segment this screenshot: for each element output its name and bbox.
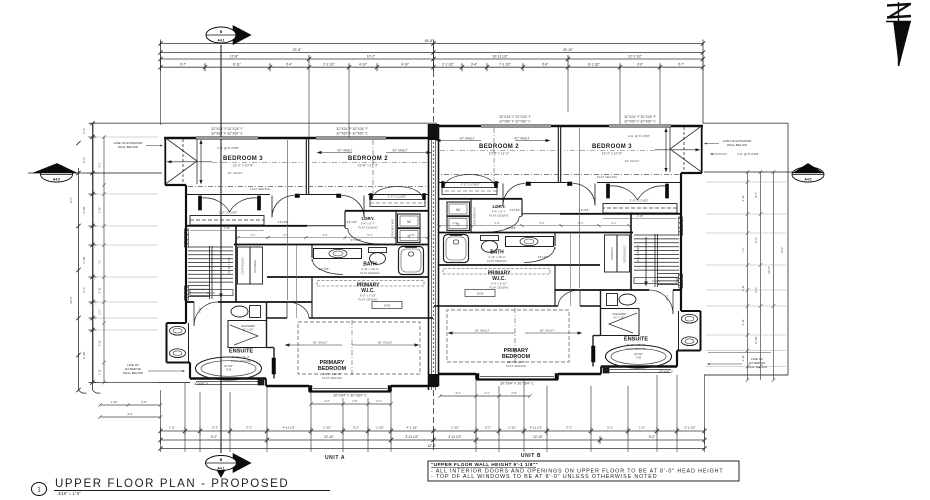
handrail boxes (617, 235, 630, 272)
closet bedroom3: double door arcs (638, 186, 666, 200)
party wall (429, 124, 439, 390)
section marker A right (792, 164, 824, 183)
svg-text:2'-6": 2'-6" (511, 391, 516, 395)
svg-text:2'-3": 2'-3" (376, 399, 381, 403)
interior dim line hall (287, 140, 289, 300)
door ensuite (672, 290, 674, 314)
stair direction arrow (220, 249, 222, 295)
svg-text:2'6"x6'8": 2'6"x6'8" (319, 267, 330, 271)
svg-text:13'-2" x 10'-9": 13'-2" x 10'-9" (602, 152, 624, 156)
party wall black junction bottom (429, 374, 439, 387)
stair treads lower (188, 285, 210, 287)
wall: shower east (600, 290, 602, 336)
wall: bath north (439, 232, 634, 234)
svg-text:8'-11": 8'-11" (233, 63, 241, 67)
svg-text:WALL BELOW: WALL BELOW (123, 371, 143, 375)
hall dim row 2 (439, 225, 629, 227)
wall: WIC south / bedroom north (267, 317, 287, 319)
svg-text:3'-11": 3'-11" (741, 319, 745, 325)
svg-text:BEDROOM 2: BEDROOM 2 (479, 144, 519, 150)
section line A-A left (28, 172, 162, 174)
svg-text:22'-10": 22'-10" (533, 435, 543, 439)
svg-text:6'-1": 6'-1" (754, 287, 758, 293)
door bath (554, 247, 556, 249)
svg-text:1'-10": 1'-10" (224, 226, 231, 230)
north wall window breaks (609, 125, 671, 127)
dimension rows bottom (158, 375, 706, 461)
wall: WIC west (554, 265, 556, 306)
svg-text:LDRY.: LDRY. (361, 216, 374, 221)
ensuite toilet (231, 306, 248, 317)
svg-text:5'-4": 5'-4" (367, 233, 372, 237)
door bath (311, 259, 313, 261)
svg-text:FLAT CEILING: FLAT CEILING (231, 359, 252, 363)
svg-text:2'-0" CLOSET: 2'-0" CLOSET (461, 183, 480, 187)
shower stall (228, 321, 267, 348)
svg-text:12'-8": 12'-8" (230, 54, 239, 58)
svg-text:8'-7": 8'-7" (754, 192, 758, 198)
wall: bath south / WIC north (439, 264, 601, 266)
svg-text:42" VAULT: 42" VAULT (625, 159, 640, 163)
wall: west exterior (680, 173, 682, 311)
svg-text:42" VAULT: 42" VAULT (337, 149, 352, 153)
door jamb at bedroom window (258, 378, 264, 385)
svg-text:2'-1": 2'-1" (484, 391, 489, 395)
window sill lines under tub (196, 381, 261, 383)
svg-text:8'-2": 8'-2" (754, 237, 758, 243)
svg-text:1'-10": 1'-10" (637, 214, 644, 218)
north wall window breaks (196, 137, 258, 139)
svg-text:3'-11 1/2": 3'-11 1/2" (405, 435, 418, 439)
primary bedroom center dash (514, 308, 516, 364)
bedroom2 center dash (493, 128, 495, 181)
svg-text:8'-7": 8'-7" (69, 197, 73, 203)
svg-text:LINEN: LINEN (652, 279, 660, 283)
svg-text:9'-10": 9'-10" (754, 336, 758, 343)
svg-text:1'-10": 1'-10" (451, 426, 459, 430)
svg-text:3'-7": 3'-7" (180, 63, 186, 67)
svg-text:7'-1 1/2": 7'-1 1/2" (499, 63, 511, 67)
svg-text:2'-0" CLOSET: 2'-0" CLOSET (219, 211, 238, 215)
door primary bedroom (579, 290, 581, 306)
svg-text:UPPER FLOOR PLAN - PROPOSED: UPPER FLOOR PLAN - PROPOSED (55, 478, 289, 490)
svg-text:1'-11": 1'-11" (98, 369, 102, 375)
svg-text:2'-5": 2'-5" (352, 399, 357, 403)
door bedroom3 (271, 196, 273, 218)
wall: bath west (554, 233, 556, 247)
WIC shelves dashed (317, 281, 424, 287)
WIC shoe shelf (465, 290, 495, 297)
wall: south exterior ensuite (601, 365, 677, 367)
svg-text:5'-1": 5'-1" (283, 233, 288, 237)
svg-text:4'-4": 4'-4" (127, 412, 133, 416)
svg-text:7'-10": 7'-10" (198, 307, 202, 314)
svg-text:FLAT CEILING: FLAT CEILING (597, 175, 618, 179)
closet bedroom3: shelf (603, 204, 677, 214)
svg-text:20"X60" F: 20"X60" F (659, 370, 673, 374)
title drawing number circle (32, 483, 47, 496)
svg-text:2'-1 1/2": 2'-1 1/2" (685, 426, 696, 430)
ensuite vanity + sinks (678, 311, 680, 351)
handrail boxes (238, 247, 251, 284)
svg-text:SHOE: SHOE (477, 293, 484, 296)
svg-text:4'-1 1/2": 4'-1 1/2" (407, 426, 418, 430)
shower stall (601, 309, 640, 336)
bath vanity (506, 237, 554, 247)
svg-text:36"x60": 36"x60" (634, 352, 643, 356)
svg-text:4'-11 1/2": 4'-11 1/2" (530, 426, 542, 430)
wall hatch block west upper (679, 217, 683, 235)
svg-text:1'-10": 1'-10" (323, 426, 331, 430)
svg-text:2'6"x6'8": 2'6"x6'8" (510, 208, 521, 212)
door bedroom3 (594, 184, 596, 206)
svg-text:CONTINUOUS: CONTINUOUS (623, 245, 627, 263)
svg-text:1'-6": 1'-6" (169, 426, 175, 430)
svg-text:1'-6": 1'-6" (639, 426, 645, 430)
wall: closet south (186, 225, 307, 227)
wall: shower east (266, 302, 268, 348)
svg-text:36"x60": 36"x60" (224, 364, 233, 368)
party wall centerline dashed (433, 44, 435, 124)
bath toilet (369, 248, 387, 253)
dimension droppers top (160, 71, 162, 125)
primary bedroom vault arrows (288, 344, 342, 346)
door primary bedroom (286, 302, 288, 318)
svg-text:30"X64" F 30"X64" C: 30"X64" F 30"X64" C (500, 382, 534, 386)
bedroom2 center dash (372, 140, 374, 193)
wall: bath north (234, 244, 429, 246)
wall: hall south (673, 289, 681, 291)
svg-text:2'6"x6'8": 2'6"x6'8" (278, 220, 289, 224)
wall: south window bay (557, 374, 559, 380)
wall: LDRY north (345, 210, 429, 212)
svg-text:3'-4": 3'-4" (286, 63, 292, 67)
left inner dimension line (103, 137, 105, 382)
wall hatch block west (679, 274, 683, 288)
svg-text:2'-1": 2'-1" (250, 233, 255, 237)
stair direction arrow (645, 237, 647, 283)
wall: south exterior mid (265, 379, 267, 387)
svg-text:36" VAULT: 36" VAULT (475, 329, 490, 333)
svg-text:3'-1": 3'-1" (607, 426, 613, 430)
svg-text:23'-2": 23'-2" (767, 266, 771, 273)
wall: ensuite vanity bay (681, 310, 701, 312)
wall: ensuite/bedroom divider (592, 336, 594, 367)
svg-text:4'-10": 4'-10" (82, 206, 86, 213)
svg-text:13'-2" x 10'-9": 13'-2" x 10'-9" (233, 164, 255, 168)
svg-text:36" VAULT: 36" VAULT (313, 341, 328, 345)
svg-text:ENSUITE: ENSUITE (229, 349, 254, 355)
window seat X-brace (670, 126, 702, 149)
section line B-B vertical (220, 45, 222, 453)
dimension columns left (69, 121, 158, 393)
door LDRY (345, 228, 348, 230)
svg-text:2'6"x6'8": 2'6"x6'8" (579, 208, 590, 212)
svg-text:2'-0" CLOSET: 2'-0" CLOSET (630, 199, 649, 203)
svg-text:2'6"x6'8": 2'6"x6'8" (351, 238, 362, 242)
svg-text:42" VAULT: 42" VAULT (228, 171, 243, 175)
wall: south exterior mid (600, 367, 602, 375)
closet bedroom2: shelf + arcs (370, 200, 425, 207)
wall: LDRY west (521, 199, 523, 216)
svg-text:36" VAULT: 36" VAULT (378, 341, 393, 345)
svg-text:22'-8": 22'-8" (293, 48, 302, 52)
closet bedroom3: jambs (199, 196, 202, 210)
svg-text:W: W (456, 207, 460, 212)
stair treads upper (634, 234, 679, 236)
door LDRY (519, 216, 522, 218)
bath vanity (314, 249, 362, 259)
closet bedroom3: shelf (190, 216, 264, 226)
section marker B bottom (206, 454, 252, 479)
svg-text:BEDROOM 3: BEDROOM 3 (223, 156, 263, 162)
svg-text:WALL BELOW: WALL BELOW (747, 365, 767, 369)
black wall bar east of tub (272, 358, 276, 374)
vault arrow vertical (200, 143, 202, 181)
wall: ensuite vanity bay (167, 322, 187, 324)
bedroom3 vault arrow horizontal (655, 149, 697, 151)
wall: bedroom divider (305, 139, 307, 194)
bedroom2 vault arrows (320, 152, 352, 154)
right extension lines (706, 181, 786, 183)
svg-text:3'-6": 3'-6" (637, 63, 643, 67)
sub dimensions under unit A window (311, 403, 391, 405)
closet bedroom3: double door arcs (202, 198, 230, 212)
svg-text:10'-8" x 11'-2": 10'-8" x 11'-2" (358, 164, 379, 168)
interior dim line hall (579, 128, 581, 288)
wall: closet south (560, 213, 681, 215)
svg-text:3'-4": 3'-4" (471, 63, 477, 67)
vault arrow vertical (665, 131, 667, 169)
svg-text:7'-1": 7'-1" (741, 247, 745, 252)
wall: bedrooms south (597, 182, 681, 184)
svg-text:3'-2": 3'-2" (324, 399, 329, 403)
stair center rail (657, 234, 659, 287)
door bedroom2 (363, 196, 365, 218)
svg-text:1'-10": 1'-10" (508, 426, 516, 430)
svg-text:FLAT CEILING: FLAT CEILING (489, 213, 509, 217)
svg-text:UNIT B: UNIT B (521, 453, 541, 459)
stair treads lower (658, 273, 680, 275)
svg-text:9'-10": 9'-10" (82, 351, 86, 358)
wall: west lower (189, 363, 191, 379)
svg-text:LDRY.: LDRY. (492, 204, 505, 209)
stairwell walls (235, 226, 237, 302)
svg-text:42" VAULT: 42" VAULT (459, 137, 474, 141)
svg-text:42'-8": 42'-8" (428, 444, 437, 448)
washer dryer stack (447, 202, 470, 216)
wall: LDRY west (344, 211, 346, 228)
wall hatch block west upper (184, 229, 188, 247)
wall: north exterior (164, 137, 433, 140)
svg-text:3'-1": 3'-1" (212, 426, 218, 430)
svg-text:25'-10": 25'-10" (563, 48, 574, 52)
svg-text:TUB: TUB (636, 355, 641, 359)
door jamb at bedroom window (603, 366, 609, 373)
svg-text:STACKED W/D: STACKED W/D (391, 219, 395, 237)
svg-text:32"X60" F 32"X60" C: 32"X60" F 32"X60" C (624, 119, 656, 123)
svg-text:3'-6": 3'-6" (542, 63, 548, 67)
svg-text:FLAT CEILING: FLAT CEILING (250, 187, 271, 191)
hall dim row 2 (238, 237, 428, 239)
closet bedroom3: jambs (666, 184, 669, 198)
svg-text:HANDRAIL: HANDRAIL (253, 259, 257, 273)
svg-text:FLAT CEILING: FLAT CEILING (506, 364, 527, 368)
svg-text:4'-10": 4'-10" (401, 63, 409, 67)
svg-text:2'-6": 2'-6" (141, 400, 147, 404)
wall: south exterior ensuite (190, 377, 266, 379)
svg-text:C.H. @ 9'-3 5/8": C.H. @ 9'-3 5/8" (737, 152, 759, 156)
svg-text:23'-2": 23'-2" (69, 296, 73, 303)
wall hatch block west (184, 286, 188, 300)
svg-text:BEDROOM 2: BEDROOM 2 (348, 156, 388, 162)
wall: bath west (311, 245, 313, 259)
svg-text:1'-10": 1'-10" (98, 207, 102, 214)
stair center rail (209, 246, 211, 299)
svg-text:30"X64" F 30"X64" C: 30"X64" F 30"X64" C (333, 394, 367, 398)
svg-text:2'-5": 2'-5" (409, 233, 414, 237)
roof outline left (93, 122, 165, 124)
svg-text:3'-7": 3'-7" (678, 63, 684, 67)
svg-text:ENSUITE: ENSUITE (624, 337, 649, 343)
WIC shoe shelf (372, 302, 402, 309)
primary bedroom ceiling dashed rect (447, 310, 569, 362)
svg-text:16R @ 7 7/32": 16R @ 7 7/32" (636, 245, 640, 263)
svg-text:4'-11": 4'-11" (98, 287, 102, 293)
bedroom2 vault arrows (515, 140, 547, 142)
svg-text:3'-11 1/2": 3'-11 1/2" (448, 435, 461, 439)
svg-text:8'-1 1/2": 8'-1 1/2" (588, 63, 600, 67)
svg-text:4'-1": 4'-1" (98, 162, 102, 167)
svg-text:FLAT CEILING: FLAT CEILING (489, 285, 509, 289)
wall: bedroom divider (560, 127, 562, 182)
roof outline top spanning (165, 122, 437, 124)
svg-text:2'6"x6'8": 2'6"x6'8" (347, 220, 358, 224)
wall: hall north thin (307, 225, 345, 227)
svg-text:5'-1": 5'-1" (578, 221, 583, 225)
svg-text:A4.0: A4.0 (53, 178, 60, 182)
WIC shelves dashed (443, 269, 550, 275)
svg-text:2'-1": 2'-1" (98, 309, 102, 314)
left extension lines (96, 136, 158, 138)
svg-text:3'-2": 3'-2" (353, 426, 359, 430)
svg-text:42" VAULT: 42" VAULT (392, 149, 407, 153)
svg-text:W: W (407, 219, 411, 224)
svg-text:10'-11 1/2": 10'-11 1/2" (492, 54, 508, 58)
svg-text:SHOE: SHOE (384, 305, 391, 308)
svg-text:3'-0": 3'-0" (539, 221, 544, 225)
primary bedroom center dash (351, 320, 353, 376)
ensuite tub (606, 345, 672, 368)
svg-text:9'-2": 9'-2" (211, 435, 217, 439)
svg-text:36" VAULT: 36" VAULT (540, 329, 555, 333)
wall: hall south (186, 301, 194, 303)
wall: tub/WD column west (470, 199, 472, 233)
door bedroom2 (502, 184, 504, 206)
wall: tub/WD column west (395, 211, 397, 245)
wall: south exterior east (391, 385, 429, 387)
ceiling break dash-dot lines bedrooms (212, 162, 303, 164)
svg-text:5'-4": 5'-4" (494, 221, 499, 225)
svg-text:WALL BELOW: WALL BELOW (118, 145, 138, 149)
window seat X-brace (166, 138, 198, 161)
linen shelf (634, 278, 677, 284)
svg-text:7'-10": 7'-10" (82, 256, 86, 263)
stair treads upper (188, 246, 233, 248)
wall: north exterior (434, 125, 703, 128)
ensuite tub (196, 357, 262, 380)
svg-text:1'-10": 1'-10" (376, 426, 384, 430)
wall: LDRY north (439, 198, 523, 200)
svg-text:7'-10": 7'-10" (665, 295, 669, 302)
bay sill jambs (309, 386, 312, 393)
bay sill jambs (555, 374, 558, 381)
unit A geometry (164, 137, 433, 392)
svg-text:42" x 36": 42" x 36" (613, 316, 624, 320)
svg-text:FLAT CEILING: FLAT CEILING (358, 297, 378, 301)
svg-text:FLAT CEILING: FLAT CEILING (487, 259, 507, 263)
wall: ensuite/bedroom divider (273, 348, 275, 379)
svg-text:8'-2": 8'-2" (82, 157, 86, 163)
wall: hall north thin (522, 213, 560, 215)
hall dim row (603, 218, 677, 220)
sub dimensions under unit B (440, 395, 530, 397)
svg-text:FLAT CEILING: FLAT CEILING (626, 347, 647, 351)
svg-text:CONTINUOUS: CONTINUOUS (241, 257, 245, 275)
wall: south exterior east (439, 373, 477, 375)
dimension rows top (158, 39, 705, 138)
wall: window-seat bay left (164, 137, 166, 185)
roof outline right (703, 122, 788, 124)
svg-text:7'-1": 7'-1" (98, 259, 102, 264)
svg-text:FLAT CEILING: FLAT CEILING (360, 271, 380, 275)
svg-text:2'-1": 2'-1" (611, 221, 616, 225)
svg-text:42" x 36": 42" x 36" (242, 328, 253, 332)
wall: south window bay (308, 386, 310, 392)
ensuite toilet (619, 294, 636, 305)
bath tub (444, 235, 469, 263)
linen shelf (190, 290, 233, 296)
svg-text:BEDROOM 3: BEDROOM 3 (592, 144, 632, 150)
svg-text:3'-2": 3'-2" (485, 426, 491, 430)
closet bedroom2: shelf + arcs (442, 188, 497, 195)
window sill lines under tub (606, 369, 671, 371)
svg-text:- TOP OF ALL WINDOWS TO BE AT: - TOP OF ALL WINDOWS TO BE AT 8'-0" UNLE… (431, 474, 657, 480)
svg-text:22'-10": 22'-10" (324, 435, 334, 439)
black wall bar east of tub (592, 346, 596, 362)
svg-text:16R @ 7 7/32": 16R @ 7 7/32" (227, 257, 231, 275)
primary bedroom vault arrows (525, 332, 579, 334)
svg-text:2'-5": 2'-5" (452, 221, 457, 225)
roof right tick line (708, 352, 771, 354)
wall: window-seat bay left (701, 125, 703, 173)
title underline (54, 490, 330, 492)
svg-text:10'-2": 10'-2" (367, 54, 376, 58)
svg-text:A4.1: A4.1 (217, 467, 224, 471)
ensuite vanity + sinks (188, 323, 190, 363)
svg-text:TUB: TUB (226, 367, 231, 371)
svg-text:3'-0": 3'-0" (322, 233, 327, 237)
svg-text:2'-1": 2'-1" (566, 426, 572, 430)
svg-text:48'-8": 48'-8" (425, 39, 434, 43)
svg-text:10'-8" x 11'-2": 10'-8" x 11'-2" (489, 152, 510, 156)
svg-text:12'-2 1/2": 12'-2 1/2" (628, 54, 643, 58)
svg-text:2'-2": 2'-2" (82, 128, 86, 134)
unit B geometry mirrored (434, 125, 703, 380)
svg-text:3'-11": 3'-11" (98, 340, 102, 346)
wall: bedrooms south (186, 194, 270, 196)
svg-text:C.H. @ 9'-4 5/8": C.H. @ 9'-4 5/8" (628, 134, 650, 138)
